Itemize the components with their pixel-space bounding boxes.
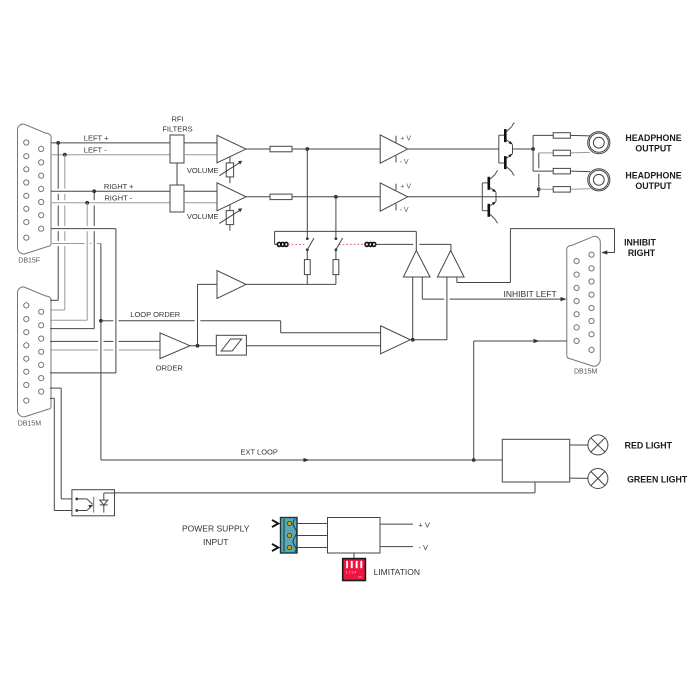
arrow on EXT LOOP bbox=[304, 458, 310, 462]
connector J2 DB15M left bbox=[17, 287, 51, 417]
svg-text:INHIBIT LEFT: INHIBIT LEFT bbox=[504, 289, 557, 299]
op-amp U1 left input bbox=[217, 135, 246, 163]
node left channel tap bbox=[305, 147, 309, 151]
wire U4 out through Q3/Q4 to headphone net bbox=[408, 196, 539, 198]
wire U7 out to diamond box bbox=[190, 345, 216, 347]
svg-text:INHIBIT: INHIBIT bbox=[624, 237, 656, 247]
wire PS1 to DIP switch bbox=[353, 553, 355, 559]
svg-text:VOLUME: VOLUME bbox=[187, 212, 219, 221]
power supply PS1 bbox=[328, 518, 381, 554]
potentiometer RV1 VOLUME bbox=[219, 157, 242, 184]
coupling dotted link K1A to S1 bbox=[288, 243, 305, 245]
wire R6 to jack ring bbox=[570, 188, 590, 191]
wire 6 J1 bottom to loop/ext bbox=[51, 244, 101, 461]
relay box K1 bbox=[502, 439, 569, 482]
relay coil K1A bbox=[277, 242, 288, 246]
wire RIGHT+ filter to amp bbox=[184, 190, 217, 192]
connector J1 DB15F bbox=[17, 124, 51, 254]
pin +V tick U3 bbox=[395, 136, 397, 143]
resistor R4 bbox=[553, 150, 570, 156]
svg-text:+ V: + V bbox=[418, 520, 429, 529]
DIP switch SW1 LIMITATION bbox=[343, 559, 366, 581]
resistor R8 bbox=[333, 260, 339, 275]
op-amp U2 right input bbox=[217, 183, 246, 211]
wire vertical B LEFT- to J2 bbox=[50, 155, 65, 310]
svg-text:RED LIGHT: RED LIGHT bbox=[625, 441, 673, 451]
node LEFT- tap bbox=[63, 153, 67, 157]
wire relay top rail bbox=[275, 230, 417, 232]
svg-text:DB15F: DB15F bbox=[18, 258, 40, 265]
pin -V tick U3 bbox=[395, 156, 397, 163]
op-amp U5 inhibit left driver bbox=[403, 251, 430, 278]
transistor pair Q3 Q4 right output stage bbox=[482, 171, 498, 224]
transistor pair Q1 Q2 left output stage bbox=[499, 123, 515, 176]
wire LOOP ORDER to U9 upper input with hops bbox=[101, 321, 381, 333]
wire ORDER inputs from J2 with hops bbox=[50, 341, 160, 350]
RFI filter FL1 bbox=[170, 135, 184, 163]
svg-text:+ V: + V bbox=[400, 135, 411, 142]
svg-text:+ V: + V bbox=[400, 183, 411, 190]
node right output junction bbox=[537, 187, 541, 191]
svg-text:DB15M: DB15M bbox=[18, 421, 42, 428]
node order tap bbox=[196, 344, 200, 348]
coupling dotted link S2 to K1B bbox=[339, 243, 365, 245]
wire -V output bbox=[380, 546, 413, 548]
node RIGHT+ tap bbox=[92, 189, 96, 193]
wire INHIBIT LEFT to J3 with hop bbox=[422, 298, 565, 300]
connector J3 DB15M right bbox=[567, 236, 601, 366]
wire order tap up to U8 bbox=[198, 284, 218, 345]
wire row3 to R5 bbox=[533, 170, 553, 172]
headphone jack J5 bbox=[588, 169, 610, 191]
optocoupler U10 bbox=[72, 490, 115, 516]
wire TB1 to PS1 pin1 bbox=[297, 523, 328, 525]
svg-text:on: on bbox=[358, 575, 362, 579]
lamp LP2 green bbox=[588, 469, 608, 489]
op-amp U8 loop driver bbox=[217, 271, 246, 299]
wire vertical joining rows 2 and 4 with hop bbox=[538, 153, 540, 197]
op-amp U4 right buffer bbox=[380, 183, 408, 211]
switch S1 contact bbox=[306, 237, 314, 251]
wire U6 input from order node bbox=[413, 277, 447, 340]
headphone jack J4 bbox=[588, 132, 610, 154]
resistor R3 bbox=[553, 133, 570, 139]
wire TB1 to PS1 pin2 bbox=[297, 535, 328, 537]
resistor R5 bbox=[553, 168, 570, 174]
wire ext loop to relay box bbox=[474, 459, 503, 461]
resistor R7 bbox=[304, 260, 310, 275]
svg-text:RIGHT: RIGHT bbox=[628, 248, 656, 258]
svg-text:RIGHT +: RIGHT + bbox=[104, 182, 134, 191]
svg-text:HEADPHONE: HEADPHONE bbox=[625, 133, 681, 143]
svg-text:LOOP ORDER: LOOP ORDER bbox=[130, 310, 180, 319]
wire relay box to green lamp bbox=[570, 477, 588, 479]
wire U3 out to Q1/Q2 bbox=[408, 148, 499, 150]
wire diamond box to U9 lower input bbox=[246, 345, 380, 347]
arrow power input 1 bbox=[272, 520, 278, 527]
op-amp U9 order combiner bbox=[381, 326, 411, 354]
wire S2 to R8 bbox=[335, 250, 337, 260]
svg-text:1 2 3 4: 1 2 3 4 bbox=[346, 570, 357, 574]
wire RIGHT- from J1 to filter bbox=[51, 202, 170, 204]
svg-text:- V: - V bbox=[400, 207, 409, 214]
wire LEFT- from J1 to filter bbox=[51, 154, 170, 156]
node right channel tap bbox=[334, 195, 338, 199]
node ext loop junction bbox=[472, 458, 476, 462]
RFI filter FL2 bbox=[170, 185, 184, 212]
wire FL1 to FL2 bbox=[176, 163, 178, 185]
node U9 output bbox=[411, 338, 415, 342]
wire U5 input from order node bbox=[412, 277, 414, 340]
wire INHIBIT RIGHT wrap to J3 right side bbox=[457, 229, 615, 283]
wire J2 to opto pin2 bbox=[50, 398, 77, 510]
svg-text:VOLUME: VOLUME bbox=[187, 166, 219, 175]
wire U8 output rail bbox=[246, 283, 336, 285]
wire row2 to R4 bbox=[539, 152, 553, 154]
svg-text:EXT LOOP: EXT LOOP bbox=[241, 447, 278, 456]
wire J2 to opto pin1 bbox=[50, 388, 77, 499]
svg-text:DB15M: DB15M bbox=[574, 369, 598, 376]
op-amp U6 inhibit right driver bbox=[437, 251, 464, 278]
wire vertical joining rows 1 and 3 bbox=[532, 135, 534, 171]
wire U2 out to R2 bbox=[246, 196, 270, 198]
relay coil K1B bbox=[365, 242, 376, 246]
wire row1 to R3 bbox=[533, 134, 553, 136]
wire Q1/Q2 emitters to node bbox=[513, 148, 534, 150]
pin -V tick U4 bbox=[395, 204, 397, 211]
svg-text:FILTERS: FILTERS bbox=[162, 125, 192, 134]
wire vertical A LEFT+ to J2 bbox=[50, 143, 58, 300]
wire LEFT- filter to amp bbox=[184, 154, 217, 156]
wire relay box to red lamp bbox=[570, 444, 588, 446]
wire EXT LOOP bottom run bbox=[101, 459, 474, 461]
pin +V tick U4 bbox=[395, 184, 397, 191]
wire TB1 to PS1 pin3 bbox=[297, 547, 328, 549]
wire +V output bbox=[380, 523, 413, 525]
arrow into J3 inhibit right bbox=[601, 250, 607, 254]
wire RIGHT- filter to amp bbox=[184, 202, 217, 204]
resistor R1 bbox=[270, 146, 292, 152]
wire rail down to U5 apex bbox=[415, 231, 417, 250]
svg-text:RIGHT -: RIGHT - bbox=[104, 194, 132, 203]
node left output junction bbox=[531, 147, 535, 151]
wire R1 to buffer U3 bbox=[292, 148, 380, 150]
wire ext loop up to J3 bbox=[474, 341, 567, 460]
wire R7 to U5 output rail bbox=[306, 275, 308, 285]
wire relay box bottom to opto line bbox=[104, 482, 535, 493]
wire R2 to buffer U4 bbox=[292, 196, 380, 198]
send symbol X1 diamond box bbox=[216, 335, 246, 355]
potentiometer RV2 VOLUME bbox=[219, 204, 242, 231]
wire tap to switch S2 bbox=[335, 197, 337, 237]
arrow into J3 inhibit left bbox=[561, 297, 567, 301]
wire R3 to jack tip bbox=[570, 134, 590, 137]
wire S1 to R7 bbox=[306, 250, 308, 260]
terminal block TB1 bbox=[281, 518, 298, 554]
resistor R6 bbox=[553, 187, 570, 193]
wire rail down to coil K1A bbox=[274, 231, 276, 244]
svg-text:- V: - V bbox=[400, 159, 409, 166]
wire U5 base to inhibit-left line bbox=[421, 277, 423, 299]
op-amp U3 left buffer bbox=[380, 135, 408, 163]
wire 5 J1 bottom to J2 bbox=[50, 229, 116, 373]
wire vertical D RIGHT+ to J2 bbox=[50, 191, 94, 328]
svg-text:RFI: RFI bbox=[171, 114, 183, 123]
wire vertical C RIGHT- to J2 bbox=[50, 203, 87, 320]
resistor R2 bbox=[270, 194, 292, 200]
switch S2 contact bbox=[335, 237, 343, 251]
wire R8 to U5 output rail bbox=[335, 275, 337, 285]
lamp LP1 red bbox=[588, 435, 608, 455]
svg-text:OUTPUT: OUTPUT bbox=[635, 144, 672, 154]
svg-text:LEFT +: LEFT + bbox=[84, 134, 109, 143]
svg-text:OUTPUT: OUTPUT bbox=[635, 181, 672, 191]
wire R5 to jack tip bbox=[570, 170, 590, 173]
svg-text:INPUT: INPUT bbox=[203, 537, 229, 547]
svg-text:HEADPHONE: HEADPHONE bbox=[625, 170, 681, 180]
wire LEFT+ from J1 to filter bbox=[51, 142, 170, 144]
wire LEFT+ filter to amp bbox=[184, 142, 217, 144]
arrow power input 2 bbox=[272, 544, 278, 551]
svg-text:LEFT -: LEFT - bbox=[84, 146, 107, 155]
wire R4 to jack ring bbox=[570, 151, 590, 154]
svg-text:LIMITATION: LIMITATION bbox=[374, 567, 420, 577]
svg-text:GREEN LIGHT: GREEN LIGHT bbox=[627, 474, 688, 484]
node LEFT+ tap bbox=[56, 141, 60, 145]
svg-text:- V: - V bbox=[418, 543, 428, 552]
wire RIGHT+ from J1 to filter bbox=[51, 190, 170, 192]
svg-text:ORDER: ORDER bbox=[156, 363, 184, 372]
wire U1 out to R1 bbox=[246, 148, 270, 150]
wire K1B to U6 apex with hop bbox=[375, 244, 451, 250]
node RIGHT- tap bbox=[85, 201, 89, 205]
wire row4 to R6 bbox=[539, 188, 553, 190]
node LOOP ORDER tap bbox=[99, 319, 103, 323]
arrow into J3 ext loop bbox=[534, 339, 540, 343]
op-amp U7 ORDER bbox=[160, 333, 190, 359]
svg-text:POWER SUPPLY: POWER SUPPLY bbox=[182, 524, 250, 534]
wire tap to switch S1 bbox=[306, 149, 308, 237]
